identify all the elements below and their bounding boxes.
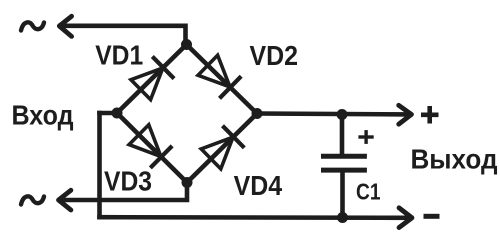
capacitor C1 polarity plus <box>358 130 373 144</box>
svg-text:VD4: VD4 <box>234 170 283 201</box>
diode VD3 <box>128 124 172 168</box>
diode VD1 <box>130 57 174 101</box>
wire bridge edge VD1 <box>117 45 187 114</box>
arrowhead top-left AC terminal <box>59 16 71 36</box>
label plus output <box>421 106 439 124</box>
diode VD4 <box>200 126 244 170</box>
node right vertex <box>252 108 263 119</box>
node left vertex <box>112 108 123 119</box>
node bottom vertex <box>182 177 193 188</box>
wire left vertex stub <box>100 111 118 116</box>
terminal symbol tilde bottom <box>21 196 44 204</box>
arrowhead minus output <box>399 208 412 228</box>
terminal symbol tilde top <box>21 22 44 30</box>
arrowhead plus output <box>399 105 412 124</box>
label minus output <box>424 214 440 219</box>
wire bridge edge VD3 <box>117 113 187 183</box>
node top vertex <box>181 39 192 50</box>
node capacitor bottom junction <box>337 212 348 223</box>
svg-text:VD2: VD2 <box>250 40 299 71</box>
svg-text:Выход: Выход <box>411 144 498 175</box>
wire bottom rail to minus arrow <box>100 215 409 220</box>
arrowhead bottom-left AC terminal <box>59 190 71 210</box>
wire capacitor bottom lead <box>340 172 345 218</box>
wire top AC: from top vertex up and left to arrow <box>61 26 186 45</box>
node capacitor top junction <box>337 109 348 120</box>
wire bridge edge VD2 <box>187 45 258 114</box>
capacitor C1 plates <box>321 154 367 159</box>
wire capacitor top lead <box>340 115 345 155</box>
svg-text:VD1: VD1 <box>95 39 143 70</box>
svg-text:Вход: Вход <box>12 99 74 130</box>
wire bottom AC: from bottom vertex down and left to arrow <box>60 183 187 201</box>
wire left drop to bottom rail <box>97 113 102 217</box>
wire bridge edge VD4 <box>187 114 257 183</box>
svg-text:VD3: VD3 <box>104 166 152 197</box>
svg-text:C1: C1 <box>356 178 381 204</box>
diode VD2 <box>197 54 241 98</box>
wire plus rail from right vertex to plus arrow <box>257 111 408 117</box>
